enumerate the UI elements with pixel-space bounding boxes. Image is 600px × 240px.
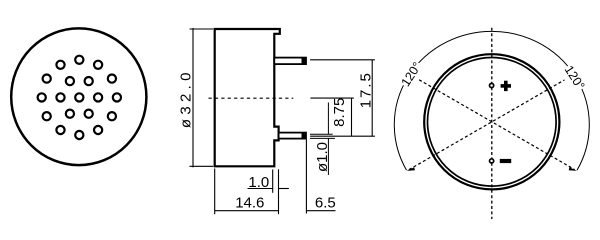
arc arrow right xyxy=(569,167,577,171)
grille holes xyxy=(38,56,121,139)
front view housing circle xyxy=(11,28,146,165)
svg-text:ø1.0: ø1.0 xyxy=(314,142,331,172)
side view case outline xyxy=(215,29,280,166)
dim 14.6 xyxy=(215,169,279,215)
back view outer circle xyxy=(424,54,559,189)
svg-text:17.5: 17.5 xyxy=(357,71,374,108)
dim 17.5 xyxy=(310,60,375,136)
negative pin dot xyxy=(490,159,494,163)
dim dia 32.0 xyxy=(190,28,214,167)
case centerline dashed xyxy=(209,97,294,99)
diagonal axis 30deg xyxy=(409,80,565,170)
svg-text:1.0: 1.0 xyxy=(248,174,269,191)
plus symbol xyxy=(501,81,511,91)
svg-text:6.5: 6.5 xyxy=(315,195,336,212)
svg-text:14.6: 14.6 xyxy=(235,195,264,212)
dim 8.75 xyxy=(351,98,353,136)
dim dia 1.0 pin xyxy=(310,103,335,176)
dim 6.5 xyxy=(306,140,335,214)
svg-text:ø32.0: ø32.0 xyxy=(177,68,194,128)
minus symbol xyxy=(500,159,511,163)
centerline extension solid xyxy=(310,97,353,99)
dim 1.0 xyxy=(248,170,289,193)
diagonal axis 150deg xyxy=(419,80,575,170)
label 120 right xyxy=(561,63,587,93)
bottom pin xyxy=(279,133,306,139)
positive pin dot xyxy=(490,83,494,87)
top pin xyxy=(274,58,306,65)
arc arrow left xyxy=(407,167,415,171)
back view inner circle xyxy=(428,58,557,187)
beam angle arc xyxy=(394,31,589,170)
svg-text:8.75: 8.75 xyxy=(331,98,348,127)
vertical centerline xyxy=(491,28,493,219)
label 120 left xyxy=(398,59,424,89)
